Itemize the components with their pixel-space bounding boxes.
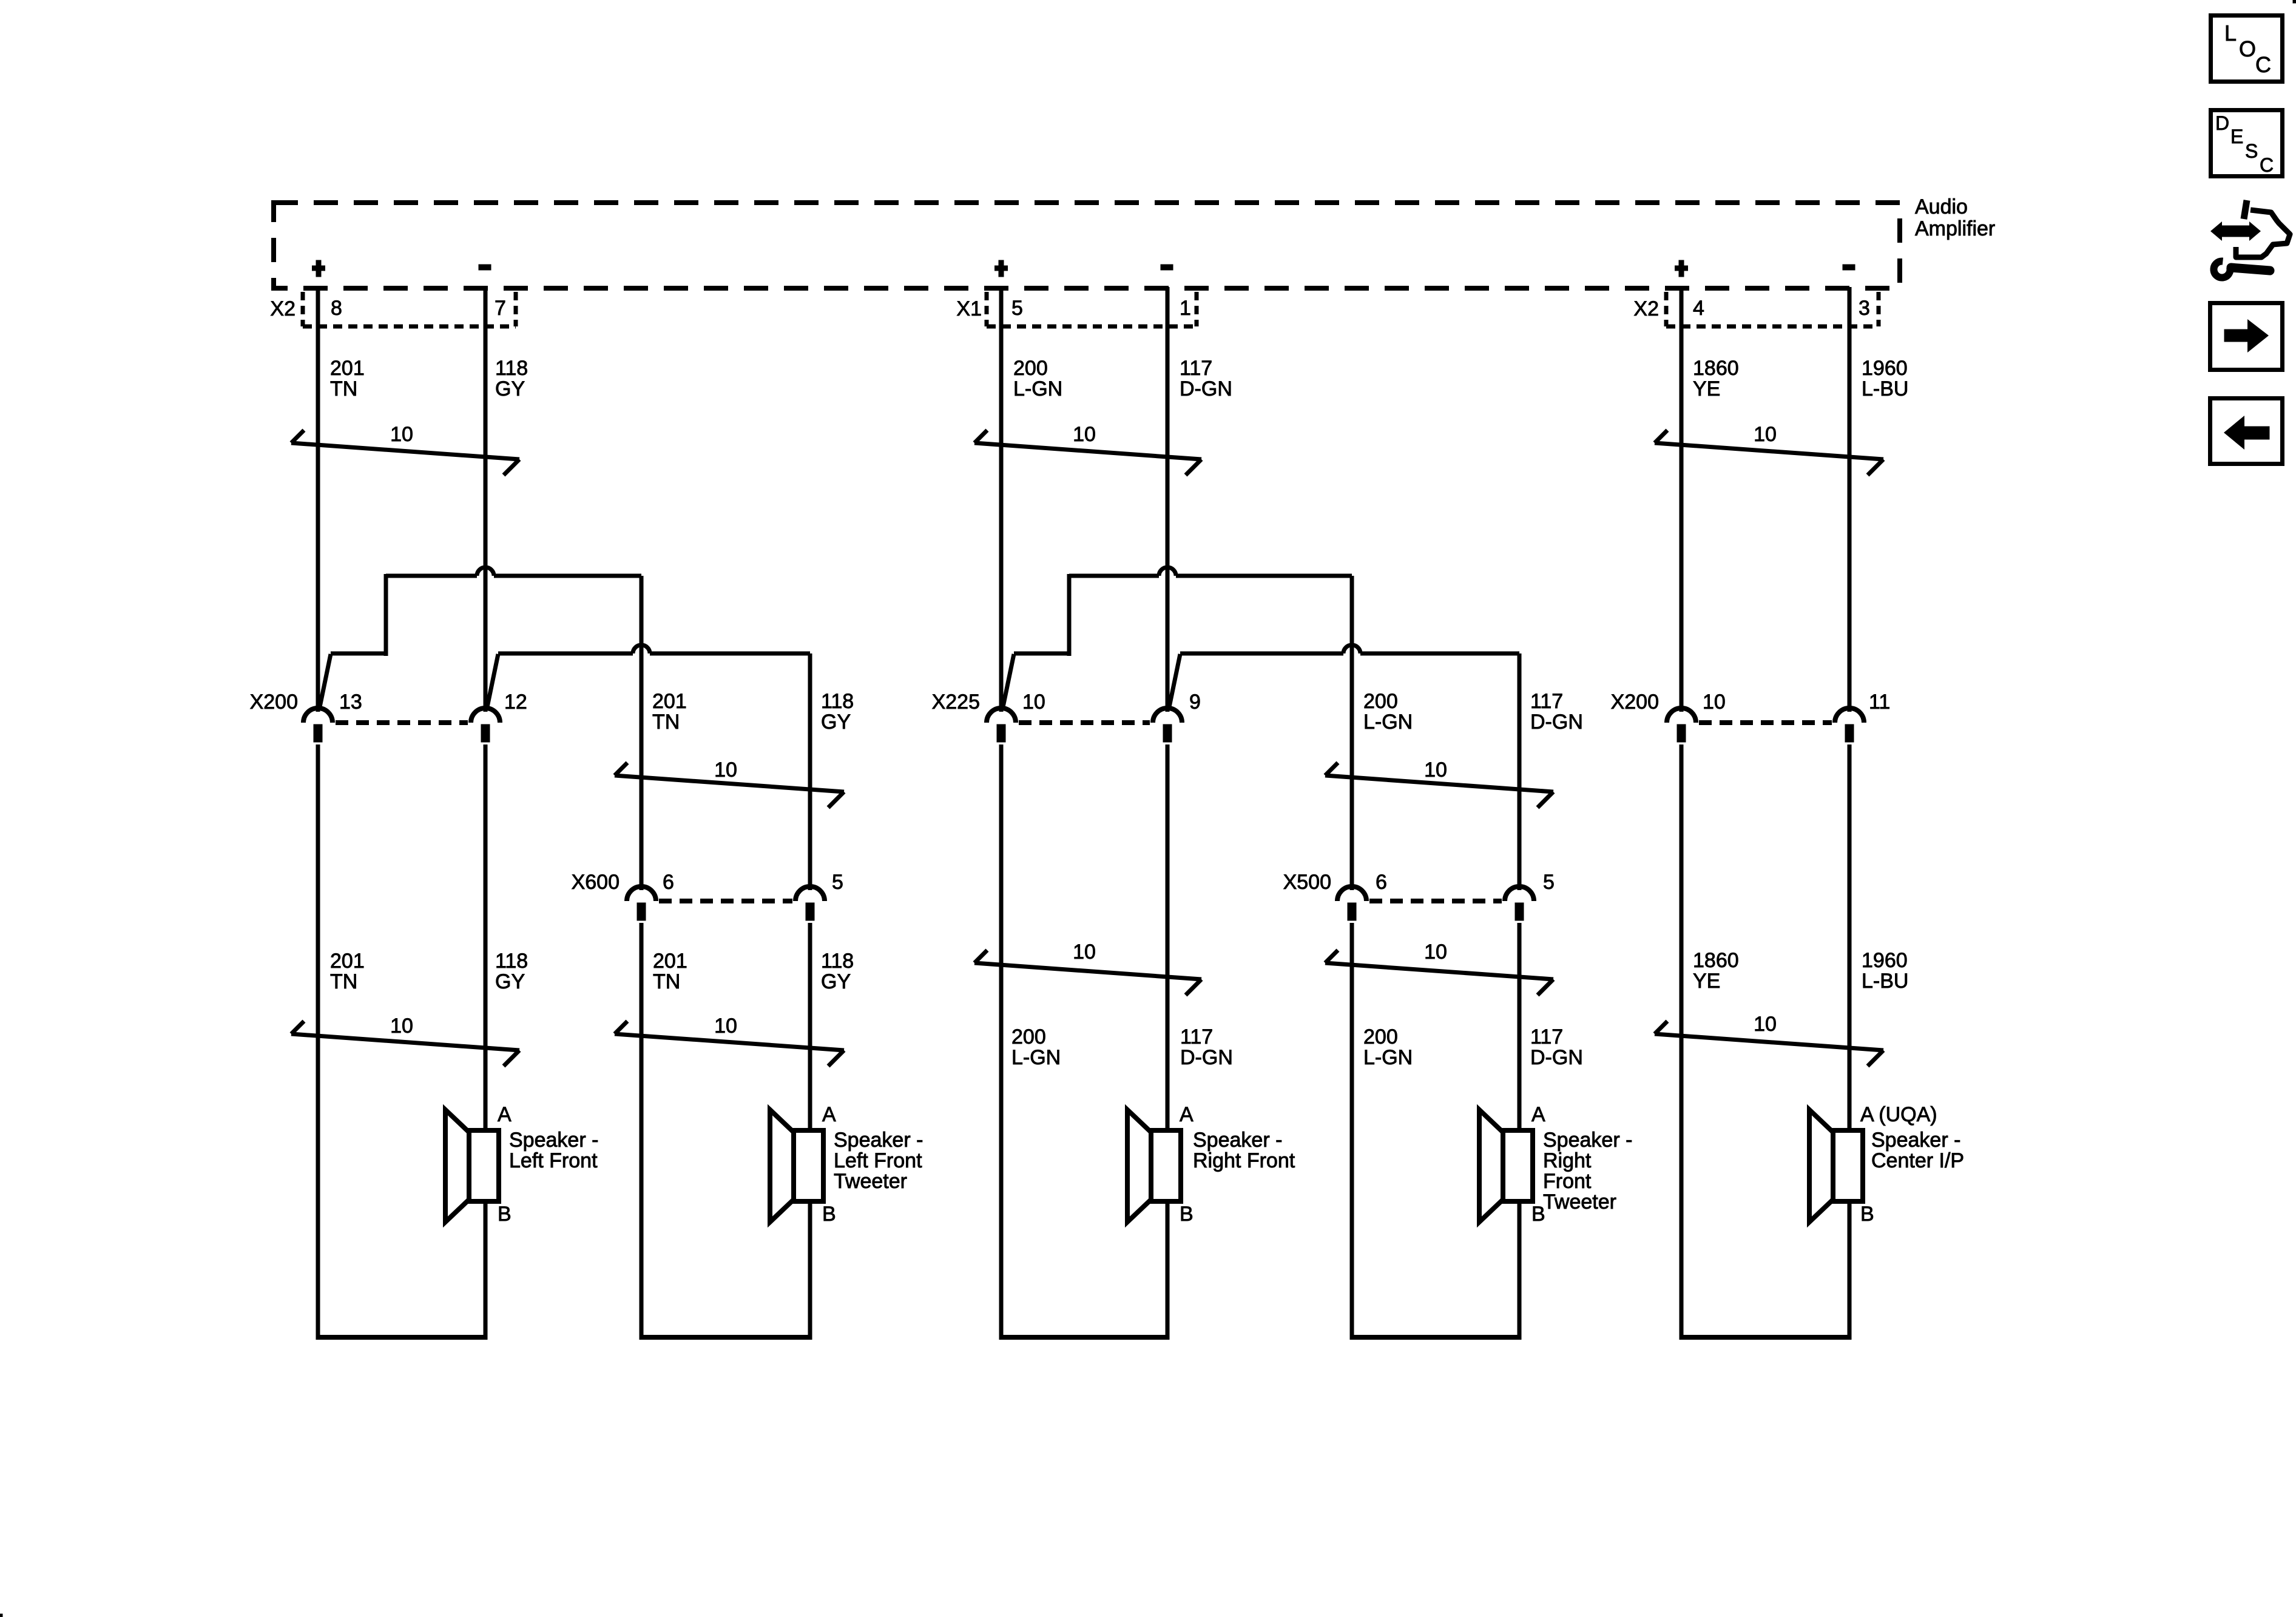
svg-text:10: 10 (1703, 690, 1726, 714)
icon jump-to-repair (double arrow, outline, wrench) (2210, 200, 2290, 278)
svg-text:Speaker -: Speaker - (834, 1129, 923, 1152)
wire 1960 L-BU below speaker B to loop (1848, 1201, 1852, 1340)
svg-text:TN: TN (652, 711, 680, 734)
svg-text:117: 117 (1180, 357, 1212, 380)
svg-text:L-GN: L-GN (1363, 1046, 1413, 1069)
svg-text:118: 118 (821, 950, 854, 973)
svg-text:A: A (498, 1103, 512, 1126)
connector X2 (amp right) dashed box (1666, 292, 1879, 326)
svg-text:Right: Right (1543, 1149, 1592, 1172)
svg-text:10: 10 (1022, 690, 1045, 714)
svg-text:D-GN: D-GN (1180, 1046, 1233, 1069)
wire 117 D-GN from amp X1-1 down to X225-9 (1166, 287, 1170, 712)
corner tick bottom-left (0, 1614, 2, 1617)
svg-text:117: 117 (1530, 690, 1563, 713)
marker 10 over pair 201/118 below X200 (291, 1014, 519, 1066)
wire label 1960 L-BU (top run) (1862, 357, 1908, 400)
svg-text:X200: X200 (250, 690, 298, 714)
wire label 201 TN (lower run x=1076) (653, 950, 687, 993)
svg-text:X1: X1 (956, 297, 982, 320)
corner tick top-right (2293, 0, 2296, 3)
svg-text:Left Front: Left Front (834, 1149, 922, 1172)
wire 201 TN from amp X2-8 down to X200-13 (316, 287, 320, 712)
svg-text:TN: TN (330, 377, 357, 400)
connector X600 pins 6-5 (627, 886, 825, 920)
svg-text:1860: 1860 (1693, 949, 1739, 972)
svg-text:10: 10 (1754, 423, 1777, 446)
wire 200 L-GN from amp X1-5 down to X225-10 (999, 287, 1004, 712)
svg-text:Front: Front (1543, 1170, 1592, 1193)
wire 1960 L-BU below X200 right to speaker A (1848, 744, 1852, 1130)
svg-text:6: 6 (663, 871, 674, 894)
wire label 201 TN (branch run) (652, 690, 687, 734)
svg-text:B: B (1860, 1203, 1874, 1226)
wire 118 GY from amp X2-7 down to X200-12 (484, 287, 488, 712)
icon back arrow box (2210, 399, 2283, 464)
svg-text:B: B (498, 1203, 512, 1226)
svg-text:3: 3 (1859, 297, 1870, 320)
wire label 201 TN (lower run x=544) (330, 950, 365, 993)
wire label 200 L-GN (branch run) (1363, 690, 1413, 734)
svg-text:200: 200 (1013, 357, 1048, 380)
wire label 117 D-GN (lower run x=2522) (1530, 1025, 1583, 1069)
wire 1860 YE from amp X2-4 down to X200-10 (1680, 287, 1684, 712)
wire label 1960 L-BU (lower run x=3068) (1862, 949, 1908, 993)
svg-text:6: 6 (1376, 871, 1387, 894)
terminal - at x=3047 (1843, 265, 1855, 270)
svg-text:Center I/P: Center I/P (1871, 1149, 1964, 1172)
svg-text:1860: 1860 (1693, 357, 1739, 380)
speaker Center name (1871, 1129, 1964, 1172)
svg-text:118: 118 (495, 357, 528, 380)
svg-text:10: 10 (1073, 940, 1096, 964)
svg-text:O: O (2239, 36, 2256, 61)
speaker Right Front Tweeter symbol (1479, 1110, 1533, 1222)
svg-text:1960: 1960 (1862, 357, 1908, 380)
tweeter wire 117 D-GN below X500 to speaker A (1518, 923, 1522, 1130)
svg-text:L-BU: L-BU (1862, 970, 1908, 993)
svg-text:X225: X225 (932, 690, 980, 714)
svg-text:S: S (2245, 140, 2258, 162)
speaker Right Front return loop bottom (999, 1335, 1169, 1340)
svg-text:10: 10 (390, 1014, 413, 1038)
speaker Right Front Tweeter loop bottom (1350, 1335, 1521, 1340)
terminal + at x=525 (312, 260, 325, 277)
svg-text:GY: GY (821, 970, 851, 993)
wire label 200 L-GN (lower run x=1667) (1011, 1025, 1061, 1069)
wire label 117 D-GN (lower run x=1945) (1180, 1025, 1233, 1069)
speaker Left Front symbol (445, 1110, 499, 1222)
wire label 1860 YE (lower run x=2790) (1693, 949, 1739, 993)
svg-text:8: 8 (331, 297, 342, 320)
wire label 117 D-GN (top run) (1180, 357, 1232, 400)
svg-text:D-GN: D-GN (1530, 1046, 1583, 1069)
svg-text:4: 4 (1693, 297, 1704, 320)
wire branch 201 TN tap (X200-13 up-over to X600-6) (319, 567, 641, 890)
svg-text:D-GN: D-GN (1530, 711, 1583, 734)
svg-text:L-GN: L-GN (1363, 711, 1413, 734)
svg-text:GY: GY (495, 377, 525, 400)
svg-text:9: 9 (1189, 690, 1201, 714)
wire 118 GY below X200 to speaker A (484, 744, 488, 1130)
svg-text:X600: X600 (572, 871, 620, 894)
connector X200 (right) pins 10-11 (1667, 708, 1864, 742)
wire 200 L-GN below X225 to loop (999, 744, 1004, 1340)
svg-text:200: 200 (1363, 690, 1398, 713)
svg-text:GY: GY (821, 711, 851, 734)
marker 10 over tweeter pair below X600 (615, 1014, 844, 1066)
speaker Left Front name (509, 1129, 598, 1172)
svg-text:5: 5 (1543, 871, 1555, 894)
svg-text:117: 117 (1530, 1025, 1563, 1048)
wire label 201 TN (top run) (330, 357, 365, 400)
svg-text:GY: GY (495, 970, 525, 993)
svg-text:12: 12 (504, 690, 527, 714)
connector X2 (amp left) dashed box (303, 292, 516, 326)
svg-text:C: C (2260, 154, 2274, 176)
speaker Left Front Tweeter loop bottom (640, 1335, 812, 1340)
wire 201 TN below X200 to loop (316, 744, 320, 1340)
wire 118 GY below speaker B to loop (484, 1201, 488, 1340)
svg-text:Tweeter: Tweeter (1543, 1190, 1616, 1214)
speaker Center I/P return loop bottom (1680, 1335, 1851, 1340)
svg-text:Amplifier: Amplifier (1915, 217, 1995, 240)
terminal - at x=1923 (1161, 265, 1173, 270)
svg-text:L-GN: L-GN (1011, 1046, 1061, 1069)
wire label 118 GY (lower run x=1353) (821, 950, 854, 993)
svg-text:Audio: Audio (1915, 195, 1968, 218)
svg-text:10: 10 (1073, 423, 1096, 446)
svg-text:10: 10 (1424, 940, 1447, 964)
terminal + at x=1650 (995, 260, 1008, 277)
svg-text:Speaker -: Speaker - (509, 1129, 598, 1152)
terminal + at x=2771 (1675, 260, 1688, 277)
icon LOC box (2211, 16, 2283, 82)
wire 1960 L-BU from amp X2-3 down to X200-11 (1848, 287, 1852, 712)
svg-text:TN: TN (653, 970, 680, 993)
svg-text:X2: X2 (1633, 297, 1659, 320)
speaker Center I/P symbol (1809, 1110, 1863, 1222)
svg-text:D-GN: D-GN (1180, 377, 1232, 400)
wire label 118 GY (lower run x=816) (495, 950, 528, 993)
svg-text:E: E (2230, 126, 2243, 147)
svg-text:D: D (2215, 112, 2229, 134)
svg-text:201: 201 (330, 357, 365, 380)
speaker Left Front Tweeter symbol (770, 1110, 823, 1222)
svg-text:YE: YE (1693, 970, 1720, 993)
wire 1860 YE below X200 right to loop (1680, 744, 1684, 1340)
marker 10 over tweeter branch pair right (1325, 758, 1553, 808)
svg-text:200: 200 (1011, 1025, 1046, 1048)
wire label 118 GY (branch run) (821, 690, 854, 734)
speaker RF Tweeter name (1543, 1129, 1632, 1214)
svg-text:201: 201 (652, 690, 687, 713)
svg-text:L-GN: L-GN (1013, 377, 1062, 400)
connector X225 pins 10-9 (987, 708, 1182, 742)
wire branch 118 GY tap (X200-12 over to X600-5) (487, 645, 810, 890)
wire label 200 L-GN (top run) (1013, 357, 1062, 400)
wire 117 D-GN below X225 to speaker A (1166, 744, 1170, 1130)
svg-text:Speaker -: Speaker - (1193, 1129, 1282, 1152)
svg-text:10: 10 (714, 1014, 737, 1038)
svg-text:C: C (2255, 52, 2271, 77)
wire branch 117 D-GN tap (X225-9 over to X500-5) (1169, 645, 1519, 890)
tweeter wire 201 TN below X600 to loop (640, 923, 644, 1340)
marker 10 over pair 200/117 below X225 (974, 940, 1201, 995)
svg-text:YE: YE (1693, 377, 1720, 400)
tweeter wire below speaker B to loop (right) (1518, 1201, 1522, 1340)
svg-text:201: 201 (330, 950, 365, 973)
wire 117 D-GN below speaker B to loop (1166, 1201, 1170, 1340)
svg-text:X500: X500 (1283, 871, 1331, 894)
speaker Right Front name (1193, 1129, 1295, 1172)
svg-text:X200: X200 (1611, 690, 1659, 714)
svg-text:Tweeter: Tweeter (834, 1170, 907, 1193)
wire label 1860 YE (top run) (1693, 357, 1739, 400)
svg-text:5: 5 (1011, 297, 1023, 320)
wire label 200 L-GN (lower run x=2247) (1363, 1025, 1413, 1069)
connector X500 pins 6-5 (1337, 886, 1534, 920)
svg-text:1: 1 (1180, 297, 1191, 320)
svg-text:118: 118 (821, 690, 854, 713)
wire label 117 D-GN (branch run) (1530, 690, 1583, 734)
marker 10 over pair 1860/1960 below amp (1655, 423, 1883, 475)
label: Audio Amplifier (1915, 195, 1995, 240)
audio amplifier dashed outline box (274, 203, 1900, 288)
svg-text:B: B (822, 1203, 836, 1226)
svg-text:1960: 1960 (1862, 949, 1908, 972)
svg-text:A: A (822, 1103, 836, 1126)
icon DESC box (2211, 110, 2283, 177)
svg-text:Speaker -: Speaker - (1871, 1129, 1960, 1152)
svg-text:11: 11 (1869, 690, 1890, 714)
tweeter wire 118 GY below X600 to speaker A (808, 923, 812, 1130)
svg-text:B: B (1180, 1203, 1194, 1226)
svg-text:Speaker -: Speaker - (1543, 1129, 1632, 1152)
svg-text:5: 5 (832, 871, 843, 894)
tweeter wire below speaker B to loop (808, 1201, 812, 1340)
svg-text:10: 10 (1424, 758, 1447, 781)
marker 10 over tweeter branch pair left (615, 758, 844, 808)
svg-text:13: 13 (339, 690, 362, 714)
terminal - at x=799 (479, 265, 491, 270)
marker 10 over tweeter pair below X500 (1325, 940, 1553, 995)
svg-text:7: 7 (495, 297, 506, 320)
speaker LF Tweeter name (834, 1129, 923, 1193)
svg-text:L-BU: L-BU (1862, 377, 1908, 400)
svg-text:Left Front: Left Front (509, 1149, 598, 1172)
wire label 118 GY (top run) (495, 357, 528, 400)
connector X1 (amp middle) dashed box (987, 292, 1197, 326)
svg-text:118: 118 (495, 950, 528, 973)
svg-text:TN: TN (330, 970, 357, 993)
svg-text:10: 10 (390, 423, 413, 446)
tweeter wire 200 L-GN below X500 to loop (1350, 923, 1354, 1340)
svg-text:A: A (1531, 1103, 1545, 1126)
svg-text:X2: X2 (270, 297, 295, 320)
svg-text:117: 117 (1180, 1025, 1213, 1048)
marker 10 over pair 1860/1960 below X200 right (1655, 1013, 1883, 1066)
svg-text:10: 10 (714, 758, 737, 781)
marker 10 over pair 201/118 below amp (291, 423, 519, 475)
svg-text:Right Front: Right Front (1193, 1149, 1295, 1172)
svg-text:A (UQA): A (UQA) (1860, 1103, 1937, 1126)
marker 10 over pair 200/117 below amp (974, 423, 1201, 475)
svg-text:200: 200 (1363, 1025, 1398, 1048)
wire branch 200 L-GN tap (X225-10 up-over to X500-6) (1002, 567, 1352, 890)
svg-text:A: A (1180, 1103, 1194, 1126)
icon forward arrow box (2210, 303, 2283, 370)
speaker Left Front return loop bottom (316, 1335, 487, 1340)
svg-text:10: 10 (1754, 1013, 1777, 1036)
svg-text:201: 201 (653, 950, 687, 973)
connector X200 (left) pins 13-12 (303, 708, 500, 742)
speaker Right Front symbol (1127, 1110, 1181, 1222)
svg-text:L: L (2224, 21, 2237, 46)
